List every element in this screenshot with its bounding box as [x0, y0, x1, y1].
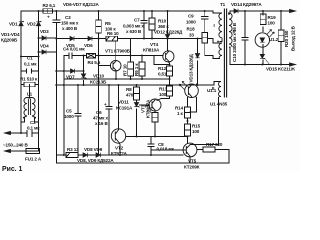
resistor R7	[128, 62, 134, 76]
junction dots mid bus y85	[63, 84, 65, 86]
svg-text:Рис. 1: Рис. 1	[2, 166, 22, 173]
transistor VT2	[111, 129, 125, 143]
wire R14-R15 rail x=187.5	[187, 118, 189, 143]
transistor VT4	[163, 51, 174, 62]
resistor R12	[167, 66, 173, 76]
wire U1.1 second lead	[190, 96, 197, 112]
diode VD4	[42, 50, 46, 54]
svg-text:R19: R19	[268, 15, 277, 20]
zener VD15	[260, 54, 265, 59]
zener VD11	[134, 103, 139, 108]
wire R5 rail x=100	[98, 11, 100, 20]
svg-text:R18: R18	[187, 27, 196, 32]
svg-text:R2 6,1: R2 6,1	[43, 3, 56, 8]
resistor R17	[203, 147, 215, 152]
svg-text:VT4: VT4	[150, 42, 159, 47]
transistor VT1	[110, 60, 121, 71]
svg-text:C9: C9	[188, 14, 194, 19]
wire VD4 row y=52	[39, 51, 57, 53]
wire mains upper y=133	[6, 132, 39, 134]
svg-text:х 16 В: х 16 В	[95, 121, 108, 126]
junction dots top bus	[38, 10, 40, 12]
wire choke top lead	[29, 85, 31, 99]
svg-text:VD2: VD2	[27, 22, 36, 27]
output arrow plus	[290, 9, 296, 12]
capacitor C7	[141, 20, 148, 23]
wire R18 rail x=206	[205, 11, 220, 59]
svg-text:R3 13: R3 13	[67, 147, 79, 152]
svg-text:C1: C1	[27, 56, 33, 61]
svg-text:100: 100	[159, 92, 167, 97]
capacitor C4	[69, 53, 72, 59]
svg-text:х 630 В: х 630 В	[126, 29, 142, 34]
svg-text:VT5: VT5	[188, 159, 197, 164]
wire R4 row y=55.5	[64, 55, 163, 57]
optocoupler U1.2 LED envelope	[255, 33, 269, 47]
resistor R11	[152, 113, 158, 123]
svg-text:R14: R14	[175, 106, 184, 111]
diode VD13	[195, 54, 199, 58]
wire tall rail x=99	[98, 33, 100, 155]
svg-text:0,018 мк: 0,018 мк	[157, 147, 175, 152]
svg-text:1000: 1000	[186, 20, 196, 25]
optocoupler U1.2 LED diode	[260, 38, 265, 42]
diode VD7	[71, 69, 75, 73]
svg-text:VD8, VD9 КД522А: VD8, VD9 КД522А	[77, 158, 114, 163]
svg-text:VD12 КД226Д: VD12 КД226Д	[154, 29, 183, 34]
wire VT5 collector bottom	[189, 157, 191, 163]
wire VD12 rail x=167.5	[167, 11, 169, 35]
wire R7 rail x=130.5	[130, 39, 132, 80]
wire U1.1 collector stub	[197, 84, 198, 85]
svg-text:VD10: VD10	[93, 74, 104, 79]
svg-text:II: II	[233, 29, 235, 34]
svg-text:L1: L1	[27, 92, 33, 97]
wire VT2 emitter	[119, 143, 122, 155]
wire component row y=155	[56, 154, 183, 156]
resistor R19	[260, 14, 266, 25]
svg-text:R10: R10	[158, 19, 167, 24]
junction dots output rails	[244, 10, 246, 12]
svg-text:+: +	[47, 15, 50, 20]
transformer T1 winding II	[229, 13, 232, 47]
wire mains lower y=151	[6, 150, 40, 152]
wire VT2 collector rail x=118.5	[118, 85, 120, 129]
resistor R15	[185, 124, 191, 136]
resistor R3	[66, 153, 78, 158]
svg-text:100: 100	[268, 21, 276, 26]
capacitor C1	[27, 68, 32, 73]
capacitor C6	[106, 107, 113, 110]
inductor L1 winding left	[24, 98, 30, 118]
wire mid row y=38.5	[56, 39, 219, 44]
wire C8 rail x=150	[150, 137, 152, 156]
output arrow minus	[290, 63, 296, 66]
junction dots mid row y38.5	[98, 38, 100, 40]
svg-text:C2: C2	[30, 120, 36, 125]
svg-text:КС213Б: КС213Б	[90, 80, 107, 85]
wire VD3 row y=38	[39, 37, 57, 39]
wire top-right output to arrow	[230, 10, 291, 12]
svg-text:КД209Б: КД209Б	[1, 38, 18, 43]
wire bridge link y=56.5	[21, 56, 39, 58]
wire R8 rail x=136.5	[136, 85, 138, 137]
resistor R13	[167, 86, 173, 96]
svg-text:R4 5,6: R4 5,6	[88, 60, 101, 65]
svg-text:R1 510 к: R1 510 к	[20, 77, 38, 82]
wire winding IV bottom rail x=218.5	[219, 96, 220, 145]
wire C3 rail x=56.3	[55, 11, 57, 163]
junction dots left bridge	[20, 132, 22, 134]
capacitor C10	[242, 37, 249, 40]
junction dots R4 row y55.5	[98, 55, 100, 57]
wire VT3 emitter to R11	[154, 111, 156, 113]
wire left bridge rail x=21	[20, 11, 22, 133]
svg-text:КП810А: КП810А	[143, 48, 160, 53]
svg-text:VT2: VT2	[115, 146, 124, 151]
svg-text:VD6: VD6	[84, 43, 93, 48]
resistor R5	[96, 20, 102, 33]
wire primary top lead	[213, 11, 220, 13]
wire R10 rail x=152	[151, 11, 153, 39]
diode VD8	[83, 153, 88, 157]
svg-text:C6: C6	[96, 110, 102, 115]
svg-text:VD7: VD7	[66, 75, 75, 80]
wire C7 rail x=144	[143, 11, 145, 39]
svg-text:R5: R5	[105, 21, 111, 26]
junction dots misc	[169, 64, 171, 66]
wire VD10 rail x=84	[83, 56, 85, 86]
wire VT3 base row y=105	[140, 104, 150, 106]
winding dots L1	[23, 117, 25, 119]
wire top bus y=11	[21, 10, 213, 12]
svg-text:II: II	[212, 86, 214, 91]
junction dots base row y136.5	[136, 136, 138, 138]
svg-text:х 400 В: х 400 В	[62, 26, 78, 31]
svg-text:FU1 2 А: FU1 2 А	[25, 157, 42, 162]
wire VD7 row y=71	[56, 70, 83, 72]
zener VD15 leader line	[266, 60, 271, 66]
wire C10 rail x=245	[244, 11, 246, 65]
wire VT1 emitter stub	[115, 71, 117, 79]
svg-text:47 мк х: 47 мк х	[93, 116, 108, 121]
wire R12-R13 rail x=169.5	[161, 76, 170, 99]
capacitor C8	[148, 144, 155, 146]
svg-text:R8: R8	[126, 87, 132, 92]
svg-text:VD6-VD7 КД212А: VD6-VD7 КД212А	[63, 2, 99, 7]
svg-text:VD13 КД226Д: VD13 КД226Д	[189, 53, 194, 82]
wire R19 LED VD15 rail x=263	[262, 11, 264, 65]
svg-text:Выход 12 В: Выход 12 В	[291, 25, 296, 51]
wire VT4 emitter rail x=167.5	[168, 62, 171, 66]
capacitor C2	[27, 130, 32, 137]
svg-text:0,51: 0,51	[158, 72, 167, 77]
resistor R18	[202, 33, 208, 44]
svg-text:C5: C5	[66, 109, 72, 114]
svg-text:R15: R15	[192, 124, 201, 129]
inductor L1 core	[28, 99, 30, 116]
wire secondary common y=64.5	[230, 47, 291, 65]
svg-text:VT1 КТ900Б: VT1 КТ900Б	[105, 49, 131, 54]
transformer T1 winding III	[219, 43, 222, 58]
diode VD12	[165, 35, 169, 39]
resistor R1	[24, 82, 35, 87]
diode VD5	[70, 36, 74, 40]
svg-text:U1.2: U1.2	[269, 37, 279, 42]
resistor R6	[106, 36, 118, 41]
wire VT5 base row y=150	[151, 149, 183, 151]
svg-text:VD11: VD11	[118, 100, 129, 105]
diode VD9	[96, 153, 101, 157]
svg-text:U1 4N35: U1 4N35	[210, 102, 228, 107]
diode VD3	[42, 36, 46, 40]
svg-text:~150...240 В: ~150...240 В	[3, 143, 28, 148]
zener VD10	[81, 74, 86, 79]
wire right bridge rail x=38.5	[38, 11, 40, 151]
svg-text:I: I	[214, 23, 215, 28]
svg-text:R17 620: R17 620	[206, 142, 223, 147]
wire VT4 base link	[154, 56, 170, 65]
resistor R8	[134, 87, 140, 100]
wire VT4 collector rail x=167.5	[167, 39, 169, 52]
wire bottom bus y=162	[56, 162, 229, 164]
mains arrow lower	[4, 149, 11, 152]
wire choke bottom leads	[21, 117, 39, 133]
svg-text:150 мк х: 150 мк х	[61, 21, 79, 26]
diode VD6	[88, 36, 92, 40]
svg-text:R13: R13	[159, 87, 168, 92]
optocoupler U1.1 phototransistor	[185, 84, 199, 98]
resistor R20	[278, 30, 284, 42]
transformer T1 winding IV	[219, 82, 222, 97]
transformer T1 core	[224, 9, 226, 98]
svg-text:1 к: 1 к	[177, 111, 184, 116]
wire VT1 collector rail x=116	[115, 41, 117, 61]
wire VT3 collector diag	[157, 99, 161, 101]
svg-text:33: 33	[189, 33, 194, 38]
svg-text:100: 100	[192, 129, 200, 134]
svg-text:470: 470	[126, 93, 134, 98]
svg-text:0,003 мк х: 0,003 мк х	[123, 23, 144, 28]
optocoupler U1.1 light arrows	[179, 81, 188, 89]
svg-text:51: 51	[147, 109, 152, 114]
wire VT5 emitter row y=144.5	[191, 143, 219, 145]
wire R9 rail x=144.5	[141, 56, 143, 80]
svg-text:VD4: VD4	[40, 44, 49, 49]
capacitor C9	[201, 17, 209, 20]
wire U1.1 emitter	[187, 97, 189, 108]
svg-text:КТ209К: КТ209К	[184, 165, 200, 170]
wire C1 row y=71	[21, 70, 39, 72]
svg-text:0,1 мк: 0,1 мк	[24, 62, 37, 67]
resistor R4	[87, 53, 96, 58]
transistor VT5	[183, 143, 197, 157]
svg-text:VD1-VD4: VD1-VD4	[1, 32, 20, 37]
wire C6 rail x=109	[108, 85, 110, 155]
wire emitter row y=79	[64, 78, 170, 80]
svg-text:0,1 мк: 0,1 мк	[27, 126, 40, 131]
svg-text:R20 150: R20 150	[284, 30, 289, 47]
capacitor C3	[52, 20, 60, 23]
wire VD13 rail x=197.5	[197, 39, 199, 86]
svg-text:R7 10: R7 10	[122, 64, 127, 76]
svg-text:R9 1 к: R9 1 к	[134, 63, 139, 76]
svg-text:T1: T1	[220, 2, 226, 7]
wire R17 row y=149.5	[197, 150, 229, 164]
wire R13 top stub	[169, 85, 171, 86]
svg-text:VD3: VD3	[40, 29, 49, 34]
svg-text:R6 10: R6 10	[107, 31, 119, 36]
wire VT2 base row y=136.5	[126, 136, 188, 138]
resistor R2	[43, 9, 53, 14]
svg-text:VD5: VD5	[66, 43, 75, 48]
inductor L1 winding right	[30, 98, 36, 118]
resistor R9	[139, 62, 145, 76]
svg-text:VD8 VD9: VD8 VD9	[84, 147, 103, 152]
diode VD1	[19, 21, 24, 26]
svg-text:VD1: VD1	[9, 22, 18, 27]
resistor R10	[149, 18, 155, 30]
wire left sub rail x=63.8	[63, 56, 65, 156]
diode VD14	[234, 9, 238, 13]
capacitor C5	[75, 113, 82, 116]
resistor R14	[185, 107, 191, 118]
wire secondary top lead	[229, 11, 231, 13]
svg-text:360 к: 360 к	[158, 24, 169, 29]
diode VD2	[36, 21, 41, 26]
transformer T1	[24, 9, 232, 118]
wire R20 rail x=281	[280, 11, 282, 65]
svg-text:КС191А: КС191А	[116, 106, 133, 111]
svg-text:VD15 КС211Ж: VD15 КС211Ж	[266, 67, 296, 72]
transistor VT3	[149, 99, 161, 111]
mains arrow upper	[4, 131, 11, 134]
svg-text:C7: C7	[134, 18, 140, 23]
wire mid bus y=85	[56, 82, 219, 86]
svg-text:КТ972А: КТ972А	[111, 151, 128, 156]
svg-text:VD14 КД2997А: VD14 КД2997А	[231, 2, 262, 7]
svg-text:C3: C3	[65, 15, 71, 20]
optocoupler U1.2 light arrows	[267, 30, 274, 38]
junction dots bottom rows	[63, 154, 65, 156]
svg-text:1000: 1000	[64, 114, 74, 119]
transformer T1 winding I	[219, 13, 222, 42]
wire R11 rail to base wire	[154, 122, 156, 137]
svg-text:R12: R12	[158, 66, 167, 71]
wire C5 rail x=78	[77, 85, 79, 153]
junction dots emitter row y79	[115, 78, 117, 80]
wire R1 row y=84.5	[21, 84, 39, 86]
wire VT1 base row y=65.4	[99, 64, 111, 66]
fuse FU1	[26, 149, 40, 154]
